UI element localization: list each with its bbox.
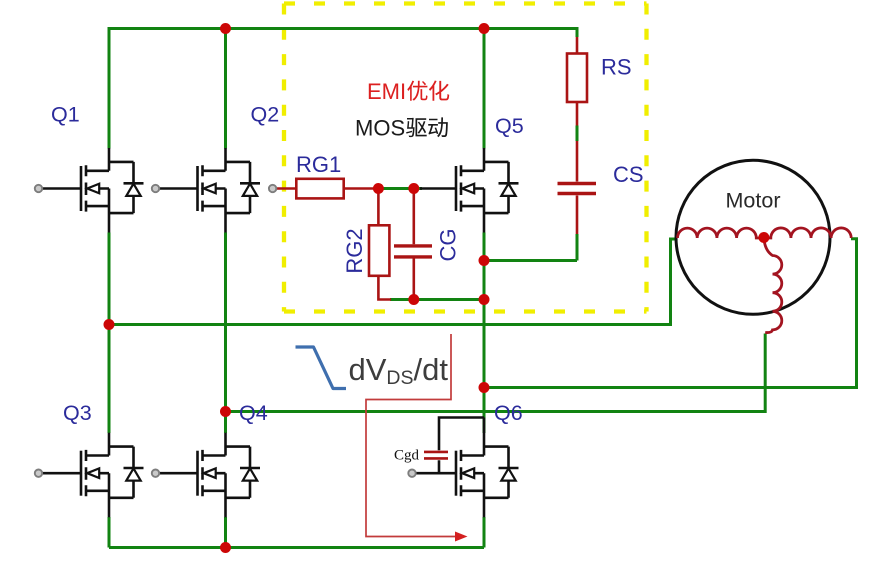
- dv/dt measurement red path with arrow: [366, 334, 456, 537]
- svg-text:RS: RS: [601, 55, 632, 80]
- Q6 gate terminal: [408, 470, 415, 477]
- svg-text:Q4: Q4: [239, 401, 268, 425]
- wire: Q6 source to bottom rail: [483, 517, 486, 548]
- Q4 gate terminal: [152, 470, 159, 477]
- junction gate-network return / Q5 source column: [479, 294, 490, 305]
- Q2 gate terminal: [152, 185, 159, 192]
- resistor RG1: [296, 179, 343, 199]
- capacitor CS: [558, 184, 597, 194]
- motor neutral point junction: [758, 232, 769, 243]
- junction top rail / Q5 drain: [479, 23, 490, 34]
- svg-text:Q1: Q1: [51, 103, 80, 127]
- Q1 gate lead: [42, 187, 81, 190]
- wire: Q3 source to bottom rail: [108, 517, 111, 548]
- transistor Q1: [81, 148, 144, 233]
- node phase C: [479, 382, 490, 393]
- wire: Q4 source to bottom rail: [224, 517, 227, 548]
- transistor Q4: [198, 433, 261, 518]
- resistor RG2: [369, 225, 389, 275]
- wire: Q3 drain from phase-A node: [108, 325, 111, 434]
- node phase B: [220, 406, 231, 417]
- svg-text:Q3: Q3: [63, 401, 92, 425]
- junction gate node / CG tap: [408, 183, 419, 194]
- junction top rail / Q2 drain: [220, 23, 231, 34]
- Cgd feedback loop wire gate-to-drain of Q6: [439, 418, 484, 474]
- wire: Q2/Q5 drain drops from top rail: [224, 29, 227, 149]
- svg-text:RG2: RG2: [342, 228, 367, 273]
- junction bottom rail / Q4 source: [220, 542, 231, 553]
- svg-text:Motor: Motor: [726, 189, 781, 213]
- wire: gate node between RG1 and CG taps: [378, 187, 422, 190]
- wire: snubber branch green segments: [576, 126, 579, 142]
- node phase A: [104, 319, 115, 330]
- svg-text:Q6: Q6: [494, 401, 523, 425]
- Q3 gate lead: [42, 472, 81, 475]
- svg-text:MOS: MOS: [355, 116, 405, 141]
- Q5 gate lead: [420, 187, 456, 190]
- junction gate node / RG2 tap: [373, 183, 384, 194]
- wire: phase-B node to motor bottom winding: [226, 334, 766, 412]
- Q6 gate lead: [415, 472, 456, 475]
- Q1 gate terminal: [35, 185, 42, 192]
- wire: RS/CS snubber branch: [576, 37, 579, 234]
- wire: phase-A node to motor left winding: [109, 239, 678, 325]
- wire: RG1 to gate node: [344, 187, 379, 190]
- junction Q5 source / snubber return: [479, 255, 490, 266]
- wire: top positive rail with drops to Q1 drain and RS branch: [109, 29, 577, 149]
- junction RG2-CG bottom: [408, 294, 419, 305]
- wire: gate drive input to RG1: [276, 187, 297, 190]
- dVds/dt falling-edge waveform icon: [296, 347, 347, 389]
- wire: CG branch: [412, 189, 415, 300]
- Q3 gate terminal: [35, 470, 42, 477]
- svg-text:Q2: Q2: [251, 103, 280, 127]
- wire: Q2 source down to phase-B node and Q4 drain: [224, 233, 227, 434]
- transistor Q2: [198, 148, 261, 233]
- wire: phase-C node to motor right winding: [484, 239, 857, 388]
- transistor Q6: [456, 433, 519, 518]
- wire: Q1 source down to phase-A node: [108, 233, 111, 325]
- svg-text:EMI: EMI: [367, 79, 406, 104]
- wire: RG2/CG bottom to Q5 source column: [390, 298, 484, 301]
- EMI optimization dashed boundary box: [284, 4, 647, 312]
- capacitor Cgd: [424, 452, 448, 459]
- svg-text:CG: CG: [435, 229, 460, 262]
- motor winding phase A (left): [678, 228, 764, 238]
- capacitor CG: [394, 246, 432, 257]
- motor winding phase C (right): [764, 228, 851, 238]
- transistor Q3: [81, 433, 144, 518]
- svg-text:Q5: Q5: [495, 114, 524, 138]
- motor winding phase B (bottom): [764, 238, 782, 333]
- wire: bottom return rail: [109, 546, 484, 549]
- gate drive input terminal for Q5: [269, 185, 276, 192]
- resistor RS: [567, 54, 587, 103]
- Q4 gate lead: [159, 472, 198, 475]
- svg-text:CS: CS: [613, 162, 644, 187]
- motor body circle: [676, 160, 830, 314]
- wire: RG2 branch: [378, 189, 391, 300]
- svg-text:RG1: RG1: [296, 152, 341, 177]
- transistor Q5: [456, 148, 519, 233]
- wire: Q5 source down through phase-C node to Q6 drain: [483, 233, 486, 434]
- wire: Q5 source node to RC snubber return: [484, 259, 577, 262]
- svg-text:Cgd: Cgd: [394, 448, 420, 464]
- Q2 gate lead: [159, 187, 198, 190]
